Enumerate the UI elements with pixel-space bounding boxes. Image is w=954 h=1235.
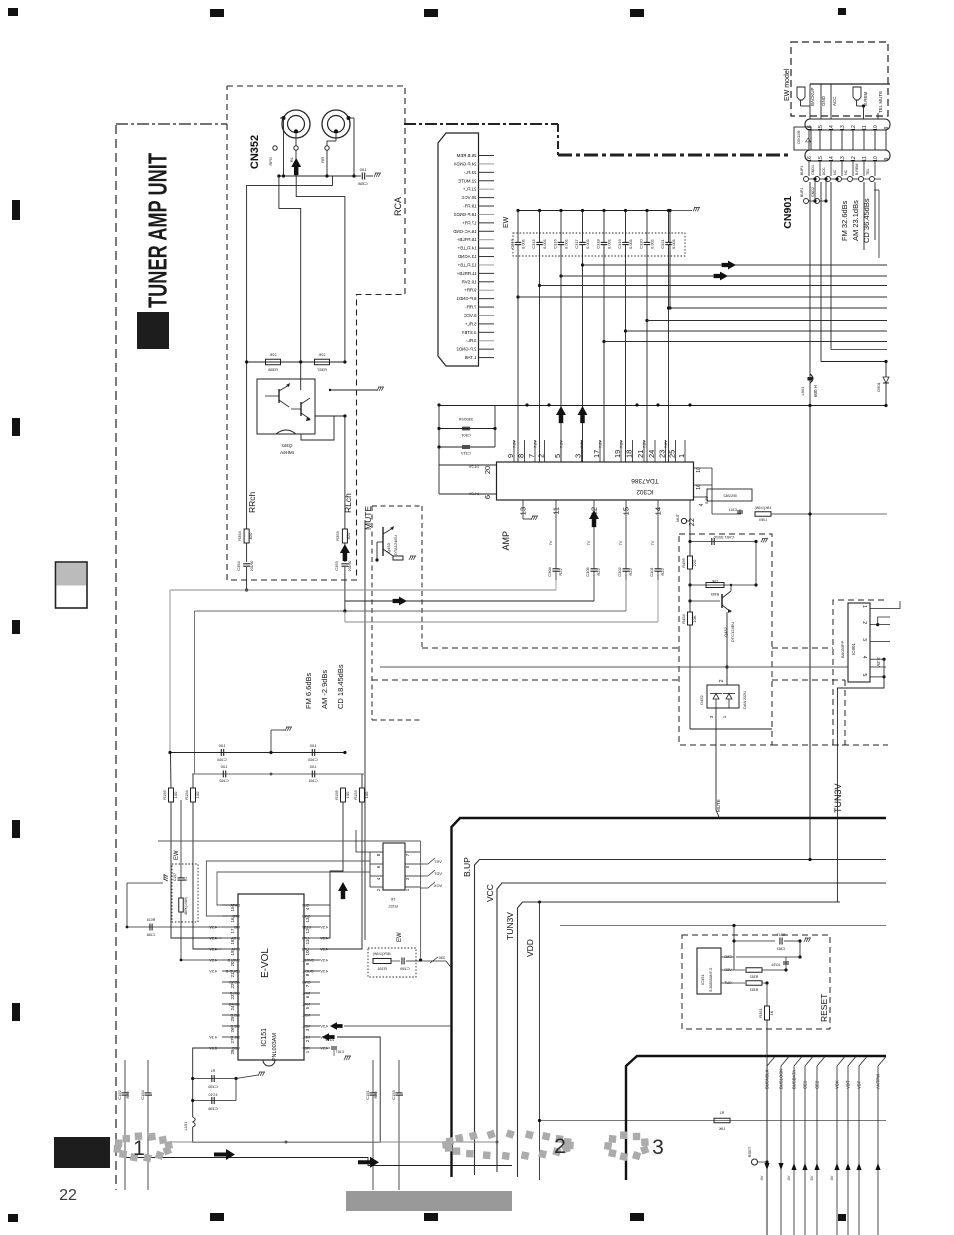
capacitor C358	[354, 175, 361, 177]
IC151 right pins	[304, 904, 320, 906]
svg-text:4.5V: 4.5V	[320, 926, 328, 930]
svg-text:4.3V: 4.3V	[209, 1036, 217, 1040]
svg-text:3: 3	[652, 1136, 664, 1159]
svg-text:15: 15	[230, 906, 235, 912]
svg-text:R456: R456	[681, 557, 686, 567]
connector CN901 row1	[805, 119, 890, 130]
svg-text:22.MUTE: 22.MUTE	[458, 178, 476, 183]
svg-text:17.FR+: 17.FR+	[462, 220, 477, 225]
marker blob 2	[442, 1129, 574, 1160]
thick corner bottom right	[626, 1056, 886, 1180]
svg-text:C314: C314	[510, 238, 515, 248]
svg-text:1.TAB: 1.TAB	[465, 355, 477, 360]
wire ACC down	[830, 182, 832, 350]
svg-text:R347: R347	[777, 933, 786, 937]
RCA jack left	[282, 110, 311, 138]
wire fan left 3	[195, 610, 627, 612]
wire y1120 gray right	[540, 1120, 887, 1122]
legend box half gray	[56, 562, 88, 608]
svg-text:BUP2: BUP2	[800, 188, 804, 197]
svg-text:16: 16	[230, 917, 235, 923]
svg-text:R1: R1	[720, 1111, 725, 1115]
svg-text:8.6V: 8.6V	[209, 1047, 217, 1051]
svg-text:0.001: 0.001	[628, 238, 633, 249]
resistor R455 15K	[690, 584, 756, 586]
svg-text:4.5V: 4.5V	[320, 948, 328, 952]
dashed box RESET	[682, 935, 830, 1029]
capacitor C301	[657, 560, 659, 569]
svg-text:ACC: ACC	[822, 167, 826, 175]
gnd stub row1	[270, 730, 272, 753]
svg-text:19.FR-: 19.FR-	[463, 204, 477, 209]
svg-text:487K(1/4W): 487K(1/4W)	[184, 897, 188, 915]
capacitor C320	[639, 209, 655, 462]
svg-text:R455: R455	[711, 592, 719, 596]
svg-text:VDT: VDT	[433, 871, 442, 876]
svg-text:20.VCC: 20.VCC	[461, 195, 476, 200]
diode D452 DAN202U	[699, 679, 747, 718]
svg-text:7.2V: 7.2V	[534, 440, 538, 448]
svg-text:VCC: VCC	[485, 884, 495, 902]
svg-text:17: 17	[230, 928, 235, 934]
wire top rail y405	[439, 405, 887, 407]
svg-text:PNL003AM: PNL003AM	[272, 1033, 278, 1062]
svg-text:R357: R357	[316, 367, 326, 372]
svg-text:28: 28	[230, 1049, 235, 1055]
svg-text:7.2V: 7.2V	[513, 440, 517, 448]
svg-text:14: 14	[829, 125, 835, 131]
svg-text:MUTE: MUTE	[716, 799, 721, 812]
svg-text:25: 25	[230, 1016, 235, 1022]
svg-text:100: 100	[309, 764, 316, 769]
capacitor C163	[311, 749, 313, 756]
svg-text:R22: R22	[596, 568, 601, 576]
svg-text:487K(1/4W): 487K(1/4W)	[373, 952, 391, 956]
arrow left at pin2	[330, 1022, 343, 1030]
svg-text:C161: C161	[307, 778, 317, 783]
arrow on fan line 2	[714, 272, 728, 281]
svg-text:7.2V: 7.2V	[664, 440, 668, 448]
svg-text:12: 12	[851, 156, 857, 162]
capacitor C353	[341, 563, 348, 565]
svg-text:7V: 7V	[618, 540, 623, 545]
svg-text:EW: EW	[397, 932, 403, 942]
svg-text:4.5V: 4.5V	[320, 1025, 328, 1029]
resistor R351 1K	[766, 983, 768, 1006]
svg-text:N3 L: N3 L	[302, 1014, 310, 1018]
wire rset down	[539, 902, 541, 1180]
capacitor C318	[596, 209, 612, 462]
svg-text:R156: R156	[162, 789, 167, 799]
left dashed border	[115, 125, 117, 1190]
staircase wire RPG	[247, 176, 333, 362]
resistor R454 10K	[688, 612, 693, 625]
svg-text:202/50: 202/50	[250, 561, 254, 572]
svg-text:SVIN L: SVIN L	[302, 959, 314, 963]
svg-text:0.001: 0.001	[650, 238, 655, 249]
IC901 pin4 wire	[870, 658, 884, 660]
svg-text:13: 13	[305, 917, 310, 923]
svg-text:20: 20	[483, 466, 492, 474]
svg-text:13: 13	[840, 125, 846, 131]
svg-text:L151: L151	[183, 1121, 188, 1131]
svg-text:R358: R358	[267, 367, 277, 372]
svg-text:4.3V: 4.3V	[209, 926, 217, 930]
svg-text:D452: D452	[699, 694, 704, 704]
svg-text:100: 100	[220, 764, 227, 769]
svg-text:4V: 4V	[829, 1175, 834, 1180]
transistor Q352 IMH6A	[257, 379, 315, 455]
EW model dashed box	[791, 42, 888, 116]
svg-text:RR: RR	[320, 157, 325, 163]
svg-text:TUN3V: TUN3V	[505, 912, 515, 940]
capacitor C321	[660, 209, 676, 462]
svg-text:C164: C164	[216, 757, 226, 762]
svg-text:C315: C315	[531, 238, 536, 248]
IC901 pin2 wire	[870, 624, 890, 626]
footer gray bar	[346, 1191, 512, 1211]
svg-text:12.FLLB+: 12.FLLB+	[457, 262, 476, 267]
svg-text:3.3V: 3.3V	[876, 657, 881, 666]
svg-text:330: 330	[438, 955, 445, 960]
svg-text:8.P-GND1: 8.P-GND1	[456, 296, 477, 301]
svg-text:10: 10	[873, 156, 879, 162]
EW dotted box R171	[172, 864, 198, 922]
svg-text:22K: 22K	[318, 352, 325, 357]
wire bus y667	[380, 666, 886, 668]
svg-text:VCK: VCK	[434, 883, 443, 888]
svg-text:5V: 5V	[809, 1175, 814, 1180]
svg-text:4.5V: 4.5V	[209, 959, 217, 963]
wire GND down	[820, 182, 822, 362]
resistor R361 18K	[714, 1118, 730, 1123]
svg-text:BUP1: BUP1	[800, 166, 804, 175]
svg-text:C313: C313	[460, 451, 470, 456]
svg-text:C353: C353	[334, 560, 339, 570]
svg-text:21: 21	[230, 972, 235, 978]
svg-text:4.5V: 4.5V	[320, 1047, 328, 1051]
svg-text:R155: R155	[334, 789, 339, 799]
resistor R156	[169, 788, 174, 802]
svg-text:21.FL+: 21.FL+	[462, 187, 476, 192]
svg-text:15: 15	[818, 125, 824, 131]
svg-text:100: 100	[218, 743, 225, 748]
svg-text:11: 11	[305, 939, 310, 944]
svg-text:15: 15	[818, 156, 824, 162]
capacitor C161	[311, 771, 313, 778]
wire fan left 2 arrow	[345, 600, 594, 602]
wire left verticals down	[169, 590, 171, 753]
resistor R153	[360, 788, 365, 802]
dashed box Q452	[679, 534, 772, 745]
resistor R354 820	[244, 529, 249, 543]
capacitor C302	[625, 560, 627, 569]
svg-text:4V: 4V	[759, 1175, 764, 1180]
resistor at Q453 base	[393, 556, 403, 560]
ground near Q352	[330, 389, 377, 391]
svg-text:DAN202U: DAN202U	[742, 691, 747, 709]
bracket line dbs	[878, 190, 880, 258]
svg-text:TEL MUTE: TEL MUTE	[878, 91, 883, 113]
wire into box	[689, 524, 691, 542]
title block black square	[137, 312, 169, 349]
svg-text:GND2: GND2	[811, 187, 815, 197]
svg-text:R157: R157	[387, 904, 397, 909]
svg-text:0.001: 0.001	[607, 238, 612, 249]
wire EW chain vertical	[180, 800, 182, 878]
svg-text:22: 22	[687, 518, 696, 526]
svg-text:R015: R015	[147, 918, 156, 922]
wire BUP down	[809, 182, 811, 817]
bottom wire A	[125, 1158, 512, 1166]
svg-text:10/16: 10/16	[326, 1038, 335, 1042]
wire r351 down	[766, 1020, 768, 1235]
svg-text:7.2V: 7.2V	[643, 440, 647, 448]
wire q352 out right	[315, 415, 345, 417]
svg-text:R22: R22	[660, 568, 665, 576]
wires fuses to connector	[809, 84, 811, 119]
wire fan left 4	[345, 621, 658, 623]
svg-text:C159: C159	[399, 966, 409, 971]
capacitor C313	[439, 446, 495, 448]
svg-text:C163: C163	[307, 757, 317, 762]
svg-text:AMP: AMP	[501, 531, 511, 551]
svg-text:26: 26	[230, 1027, 235, 1033]
svg-text:GND1: GND1	[811, 165, 815, 175]
svg-text:820: 820	[248, 532, 253, 539]
svg-text:23.FL-: 23.FL-	[463, 170, 476, 175]
arrow up at R155 line	[338, 882, 348, 899]
gnd at C155	[236, 1075, 258, 1079]
wire RL down	[344, 416, 346, 529]
svg-text:5: 5	[861, 674, 867, 677]
volume IC151 body	[238, 894, 304, 1060]
capacitor C305	[593, 560, 595, 569]
svg-text:9: 9	[884, 157, 890, 160]
wire jack left pin	[280, 117, 284, 119]
svg-text:S-80835ANY-S: S-80835ANY-S	[709, 967, 713, 992]
svg-text:N4-L: N4-L	[302, 992, 310, 996]
capacitor C167	[320, 1047, 330, 1049]
wire y841	[158, 840, 421, 842]
wire mute collector down	[364, 520, 366, 940]
svg-text:6.VCC: 6.VCC	[464, 313, 477, 318]
svg-text:14: 14	[829, 156, 835, 162]
wire gnd pin reset	[736, 956, 800, 958]
jack pin circles	[273, 146, 277, 150]
svg-text:Q453: Q453	[386, 542, 391, 553]
IC901 pin1 wire	[870, 601, 900, 609]
svg-text:2: 2	[861, 621, 867, 624]
svg-text:10E0: 10E0	[759, 518, 767, 522]
svg-text:7V: 7V	[586, 540, 591, 545]
svg-text:27: 27	[230, 1038, 235, 1044]
svg-text:7V: 7V	[650, 540, 655, 545]
capacitor C316	[553, 209, 569, 462]
svg-text:FM 6.6dBs: FM 6.6dBs	[304, 672, 313, 709]
svg-text:C363: C363	[777, 947, 786, 951]
svg-text:EW model: EW model	[784, 68, 791, 101]
svg-text:4V: 4V	[786, 1175, 791, 1180]
svg-text:25.B.REM: 25.B.REM	[456, 153, 476, 158]
resistor network R157	[383, 843, 405, 890]
svg-text:RSET: RSET	[747, 1146, 752, 1157]
svg-text:15K(1/4W): 15K(1/4W)	[755, 506, 772, 510]
EW dotted box R151 C159	[368, 948, 416, 977]
svg-text:GND: GND	[302, 981, 311, 985]
staircase wire RL	[279, 176, 301, 362]
arrow up RL low	[340, 544, 350, 561]
svg-text:IC302: IC302	[636, 488, 654, 495]
svg-text:TEL: TEL	[866, 168, 870, 175]
svg-text:R351: R351	[758, 1007, 763, 1017]
wire y925 gray	[560, 925, 886, 927]
svg-text:4: 4	[861, 656, 867, 659]
svg-text:0.001: 0.001	[521, 238, 526, 249]
wire out pin R353b	[734, 982, 745, 984]
svg-text:C358: C358	[357, 181, 367, 186]
wire gnd branch left	[127, 882, 163, 884]
svg-text:BACKUP: BACKUP	[810, 87, 815, 106]
svg-text:12: 12	[305, 928, 310, 934]
svg-text:RRch: RRch	[247, 491, 257, 513]
pin15 wire down	[625, 500, 627, 560]
svg-text:10/16: 10/16	[772, 963, 781, 967]
wire d452 down to bus	[715, 708, 717, 810]
svg-text:220: 220	[692, 559, 697, 566]
svg-text:MUT: MUT	[676, 513, 680, 521]
svg-text:2.P-GND2: 2.P-GND2	[456, 347, 477, 352]
wire jack right pin	[349, 117, 355, 119]
capacitor C304	[555, 560, 557, 569]
svg-text:9: 9	[884, 126, 890, 129]
svg-text:13.AGND: 13.AGND	[458, 254, 477, 259]
IC901 pin5 wire 3.3V	[870, 676, 884, 678]
wire R454 down right	[689, 625, 691, 729]
svg-text:C317: C317	[574, 238, 579, 248]
svg-text:10: 10	[305, 950, 310, 956]
wire gnd right end	[821, 361, 886, 363]
svg-text:4.5V: 4.5V	[320, 970, 328, 974]
transistor Q452 DTC124EU	[689, 585, 691, 601]
capacitor C156	[191, 1099, 194, 1102]
chain line top thick	[404, 123, 558, 125]
bottom arrow 2	[358, 1157, 379, 1168]
pin13 stub to gnd	[522, 500, 524, 519]
svg-text:24.P-GND4: 24.P-GND4	[453, 161, 476, 166]
wire q352 out bottom	[301, 416, 334, 440]
svg-text:R153: R153	[353, 789, 358, 799]
wire pin17 long	[127, 926, 222, 928]
svg-text:5.RL+: 5.RL+	[464, 321, 476, 326]
capacitor C354	[243, 563, 250, 565]
capacitor C317	[574, 209, 590, 462]
svg-text:C167: C167	[336, 1050, 345, 1054]
svg-text:VST: VST	[434, 859, 442, 864]
marker blob 3	[604, 1131, 650, 1161]
resistor row wire	[247, 361, 345, 363]
svg-text:100: 100	[345, 791, 350, 798]
svg-text:B.REM: B.REM	[855, 164, 859, 175]
svg-text:C901: C901	[460, 433, 470, 438]
svg-text:16.AC-GND: 16.AC-GND	[453, 229, 476, 234]
svg-text:OUD L: OUD L	[302, 970, 314, 974]
signal lines bottom right	[764, 1057, 775, 1235]
svg-text:B.UP: B.UP	[462, 857, 472, 877]
wire y406 dots	[808, 404, 811, 407]
svg-text:NC: NC	[844, 169, 848, 175]
reset IC351 body	[697, 948, 721, 994]
svg-text:BS/282: BS/282	[723, 493, 737, 498]
wire x810 down long	[809, 406, 811, 818]
svg-text:IC351: IC351	[700, 974, 705, 985]
svg-text:22: 22	[59, 1187, 77, 1204]
svg-text:DTA124EU: DTA124EU	[393, 535, 398, 555]
capacitor C353r	[783, 961, 789, 963]
svg-text:TUNER AMP UNIT: TUNER AMP UNIT	[143, 153, 173, 308]
wire r157 left	[369, 852, 371, 887]
svg-text:100: 100	[309, 743, 316, 748]
inductor L901 600H	[800, 374, 818, 397]
resistor R352	[734, 969, 745, 971]
svg-text:4.5V: 4.5V	[320, 959, 328, 963]
thick bus B.UP	[452, 818, 887, 1177]
capacitor C319	[617, 209, 633, 462]
resistor R155	[341, 788, 346, 802]
svg-text:C321: C321	[660, 238, 665, 248]
svg-text:FM 32.6dBs: FM 32.6dBs	[840, 200, 849, 241]
capacitor C164	[220, 749, 222, 756]
svg-text:TDA7386: TDA7386	[631, 477, 659, 484]
nested loop STB	[206, 861, 370, 916]
wire gray y1142	[166, 1141, 497, 1143]
svg-text:RPG: RPG	[268, 157, 273, 166]
svg-text:11.RRLB+: 11.RRLB+	[456, 271, 476, 276]
dashed box IC901	[833, 600, 888, 745]
capacitor C155	[191, 1077, 194, 1080]
svg-text:C154: C154	[140, 1089, 145, 1099]
svg-text:15.FRLB+: 15.FRLB+	[456, 237, 476, 242]
resistor R358	[266, 359, 281, 365]
registration marks top	[8, 8, 18, 16]
svg-text:0.001: 0.001	[671, 238, 676, 249]
svg-text:100: 100	[195, 791, 200, 798]
svg-text:C305: C305	[585, 566, 590, 576]
svg-text:100: 100	[173, 791, 178, 798]
svg-text:R352: R352	[750, 975, 759, 979]
svg-text:23: 23	[230, 994, 235, 1000]
registration marks left edge	[12, 200, 20, 220]
cap row1 line	[170, 752, 345, 754]
transistor Q453 DTA124EU	[377, 526, 398, 556]
svg-text:NC: NC	[833, 169, 837, 175]
svg-text:IMH6A: IMH6A	[280, 450, 294, 455]
svg-text:24: 24	[230, 1005, 235, 1011]
svg-text:100: 100	[364, 791, 369, 798]
capacitor C162	[222, 771, 224, 778]
svg-text:CN901: CN901	[782, 196, 794, 229]
arrow left at pin1	[322, 1033, 335, 1041]
mute dashed region	[372, 505, 422, 507]
svg-text:L901: L901	[800, 386, 805, 396]
svg-text:VDD: VDD	[525, 939, 535, 957]
svg-text:7.2V: 7.2V	[599, 440, 603, 448]
svg-text:BA033FP: BA033FP	[840, 641, 845, 658]
svg-text:R1: R1	[184, 877, 188, 881]
svg-text:4.STBY: 4.STBY	[461, 330, 476, 335]
svg-text:18.P-GND3: 18.P-GND3	[453, 212, 476, 217]
svg-text:C341: C341	[729, 508, 737, 512]
